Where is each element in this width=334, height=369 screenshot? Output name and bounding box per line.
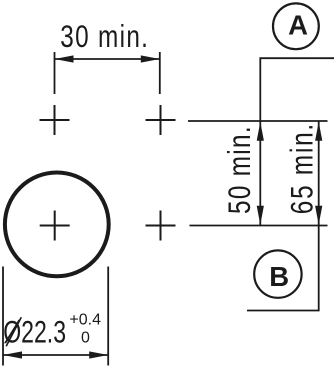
svg-text:50 min.: 50 min. xyxy=(221,125,257,214)
svg-text:65 min.: 65 min. xyxy=(283,122,319,214)
diameter symbol slash overstroke xyxy=(6,317,21,346)
hole center cross top-right xyxy=(146,105,176,135)
balloon circle A xyxy=(273,3,319,49)
arrowhead right (30 min) xyxy=(141,55,160,62)
dimension line 30 min xyxy=(55,58,160,60)
hole center cross top-left xyxy=(40,105,70,135)
dimension line Ø22.3 xyxy=(3,354,108,356)
arrowhead down (50 min) xyxy=(257,206,264,225)
svg-text:A: A xyxy=(288,9,308,40)
arrowhead down (65 min) xyxy=(315,206,322,225)
hole center cross bottom-right xyxy=(146,211,176,241)
arrowhead left (30 min) xyxy=(55,55,74,62)
arrowhead up (65 min) xyxy=(315,122,322,141)
leader line to balloon A and 50 min dimension line xyxy=(260,58,334,225)
arrowhead left (Ø22.3) xyxy=(3,351,22,358)
svg-text:0: 0 xyxy=(81,330,90,347)
svg-text:+0.4: +0.4 xyxy=(69,312,101,329)
arrowhead up (50 min) xyxy=(257,122,264,141)
svg-text:Ø22.3: Ø22.3 xyxy=(3,314,66,349)
panel edge line top (datum A edge) xyxy=(188,120,328,122)
extension line left (30 min dimension) xyxy=(54,52,56,94)
arrowhead right (Ø22.3) xyxy=(89,351,108,358)
hole center cross in circle xyxy=(40,211,70,241)
extension line right (30 min dimension) xyxy=(159,52,161,94)
hole circle Ø22.3 xyxy=(5,173,109,277)
balloon circle B xyxy=(254,250,301,297)
panel edge line bottom (datum B edge) xyxy=(190,225,328,227)
svg-text:B: B xyxy=(269,261,289,292)
svg-text:30 min.: 30 min. xyxy=(60,18,149,54)
extension line left (Ø22.3 dimension) xyxy=(2,267,4,366)
extension line right (Ø22.3 dimension) xyxy=(107,267,109,366)
65 min dimension line and leader line to balloon B xyxy=(247,121,319,311)
